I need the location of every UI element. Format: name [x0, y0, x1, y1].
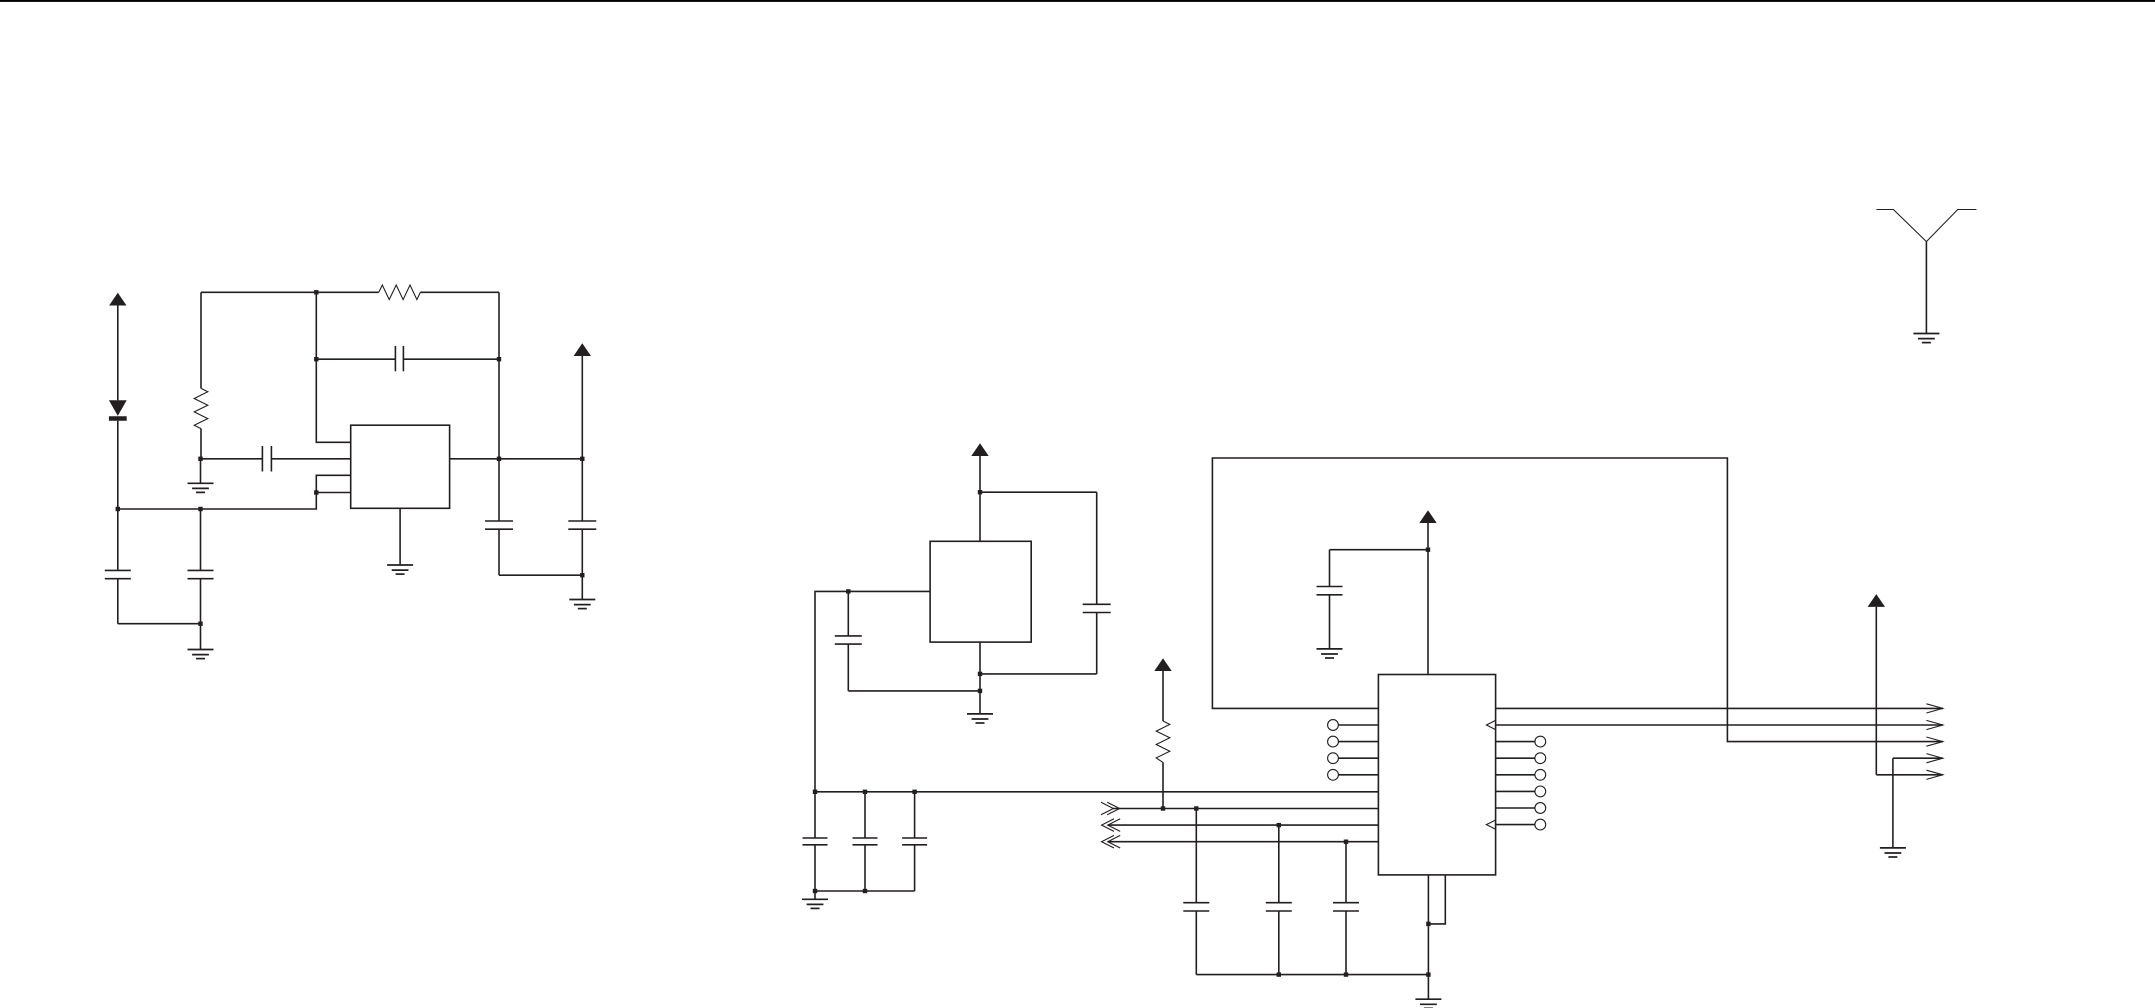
ground G8: [1317, 649, 1343, 658]
node: [1426, 922, 1430, 926]
resistor R1: [194, 292, 208, 459]
node: [314, 290, 318, 294]
wire: gnd stub to arrow (line 4): [1893, 754, 1943, 848]
capacitor C2: [201, 446, 351, 472]
MCU U3: [1378, 675, 1495, 875]
ground G5: [967, 714, 993, 723]
wire: [499, 574, 582, 576]
capacitor C8: [835, 591, 862, 691]
power flag VCC4b: [1154, 658, 1171, 721]
node N4: [198, 622, 202, 626]
wire: [980, 491, 1097, 493]
node: [1344, 972, 1348, 976]
wire: U1 pin4: [316, 492, 350, 494]
capacitor C3: [188, 509, 214, 624]
wire: bottom-left rail: [118, 493, 316, 510]
node: [1161, 806, 1165, 810]
wire: [848, 690, 980, 692]
node: [978, 689, 982, 693]
resistor R2: [316, 285, 499, 300]
capacitor C10: [853, 792, 878, 891]
node: [846, 589, 850, 593]
capacitor C9: [803, 792, 828, 891]
node: [580, 573, 584, 577]
wire: [1330, 549, 1429, 551]
wire: loop net from U3 pin to out arrow: [1212, 458, 1942, 742]
pin circle R6: [1496, 786, 1546, 797]
antenna ANT1: [1876, 210, 1976, 334]
diode D1: [109, 400, 127, 418]
wire: [815, 890, 915, 892]
wire: U3 ground pins: [1427, 875, 1429, 975]
ground G9: [1880, 848, 1906, 857]
pin circle L3: [1328, 736, 1379, 747]
capacitor C12: [1183, 809, 1209, 975]
node N2: [198, 457, 202, 461]
ground G4 (U1): [387, 508, 413, 574]
capacitor C14: [1333, 842, 1359, 975]
power flag VCC5: [1868, 594, 1885, 775]
node: [978, 672, 982, 676]
arrow out (line 3): [1926, 737, 1942, 746]
pin circle R8 with arrow: [1486, 819, 1545, 830]
wire: bottom ground rail: [1196, 974, 1428, 976]
capacitor C11: [902, 792, 927, 891]
wire: bus line 4: [1108, 841, 1379, 843]
pin circle R5: [1496, 769, 1546, 780]
node: [1194, 806, 1198, 810]
node: [813, 790, 817, 794]
pin circle R4: [1496, 753, 1546, 764]
node: [863, 889, 867, 893]
node: [1344, 840, 1348, 844]
wire: [980, 673, 1097, 675]
node: [314, 490, 318, 494]
ground G3: [569, 575, 595, 608]
node: [314, 357, 318, 361]
connector chevrons in (line 4): [1102, 835, 1121, 848]
node: [1426, 972, 1430, 976]
ground G1: [188, 459, 214, 493]
node: [497, 457, 501, 461]
pin circle R3: [1496, 736, 1546, 747]
crystal U2: [930, 541, 1031, 642]
capacitor C5: [485, 459, 513, 575]
wire: supply rail: [815, 791, 1378, 793]
wire: U3 right pin 2 to arrow: [1486, 720, 1942, 729]
node: [863, 790, 867, 794]
node N3: [198, 507, 202, 511]
capacitor C7: [1083, 492, 1111, 674]
node N1: [116, 507, 120, 511]
wire: U1 output: [450, 458, 583, 460]
node: [912, 790, 916, 794]
wire: diode cathode to bottom rail: [117, 421, 119, 509]
power flag VCC4: [1419, 510, 1436, 674]
ground G6: [802, 891, 828, 908]
capacitor C6: [568, 459, 596, 575]
node: [580, 457, 584, 461]
node: [813, 889, 817, 893]
pin circle L4: [1328, 753, 1379, 764]
wire: feedback right vertical: [498, 292, 500, 459]
node: [1277, 823, 1281, 827]
pin circle R7: [1496, 803, 1546, 814]
power flag VCC3: [971, 443, 988, 541]
capacitor C4: [316, 346, 499, 371]
wire: U1 pin3: [316, 475, 350, 492]
top border bar: [0, 0, 2155, 2]
wire: inverting input: [316, 292, 350, 442]
capacitor C13: [1266, 825, 1292, 975]
node: [978, 490, 982, 494]
wire: U2 left pin: [815, 591, 930, 791]
connector chevrons in (line 3): [1102, 819, 1121, 832]
capacitor C1: [105, 509, 131, 624]
capacitor C15: [1317, 550, 1343, 649]
ground G2: [188, 624, 214, 659]
wire: vcc to arrow (line 5): [1876, 770, 1943, 779]
wire: U2 bottom pin: [979, 642, 981, 714]
power flag VCC1: [109, 293, 126, 401]
power flag VCC2: [574, 343, 591, 459]
wire: C1 to C3 bottom: [118, 623, 201, 625]
resistor R3: [1156, 721, 1170, 809]
wire: bus line 2: [1113, 808, 1378, 810]
node: [1277, 972, 1281, 976]
wire: top rail: [201, 291, 316, 293]
node: [497, 357, 501, 361]
wire: U3 right pin 1 to arrow: [1496, 704, 1943, 713]
pin circle L2: [1328, 720, 1379, 731]
wire: bus line 3: [1108, 824, 1379, 826]
connector chevrons out: [1101, 802, 1120, 815]
ground G7: [1415, 975, 1441, 1008]
node: [1426, 548, 1430, 552]
pin circle L5: [1328, 769, 1379, 780]
op-amp U1: [351, 425, 450, 508]
ground G10: [1913, 334, 1939, 343]
